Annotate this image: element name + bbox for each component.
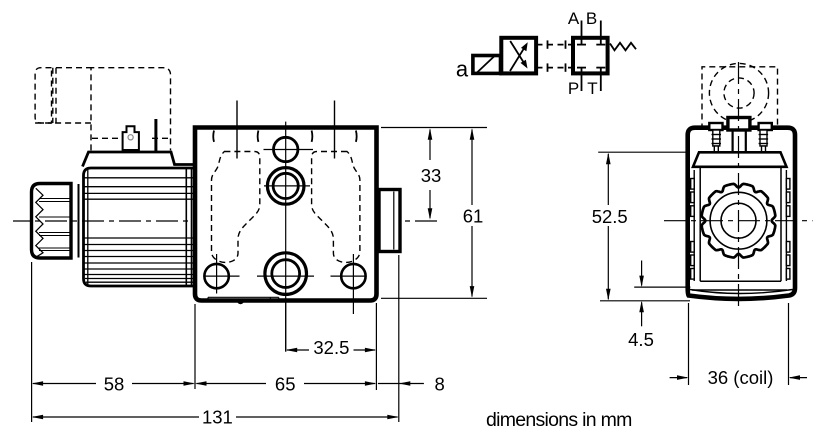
crenellated rib strip right — [785, 170, 787, 281]
ext line 4.5 upper — [634, 286, 690, 288]
dim 4.5 — [641, 261, 643, 286]
terminal bump right — [759, 123, 772, 130]
tab inner line — [393, 192, 395, 250]
crenellated rib strip left — [693, 170, 695, 281]
svg-text:32.5: 32.5 — [313, 337, 349, 358]
solenoid left inner line — [87, 168, 89, 286]
dim 61 — [471, 130, 473, 297]
coil top flange — [693, 152, 787, 167]
port line A — [581, 21, 583, 38]
svg-text:131: 131 — [202, 407, 233, 428]
solenoid actuator box — [473, 56, 501, 74]
inner bottom lines — [700, 280, 781, 282]
terminal bump left — [709, 123, 722, 130]
middle port circle outer — [267, 168, 304, 205]
connector dashed rect — [702, 67, 778, 140]
bottom left mounting hole — [204, 264, 228, 288]
connector mid section — [56, 67, 91, 69]
center tab block — [728, 118, 750, 131]
inner side walls — [699, 167, 701, 281]
connector main housing — [91, 68, 171, 151]
dim 33 — [429, 130, 431, 219]
dim 32.5 — [287, 349, 375, 351]
crossed flow path 1 — [510, 48, 524, 71]
blocked port P — [581, 68, 583, 74]
knurled nut (wavy circle) — [702, 184, 776, 258]
svg-text:58: 58 — [104, 374, 125, 395]
knob knurling zigzag — [36, 188, 43, 256]
top port circle — [274, 137, 298, 161]
extension lines vertical — [32, 255, 399, 422]
port line P — [581, 73, 583, 91]
plate locating bump — [237, 301, 244, 305]
solenoid body groove lines — [84, 178, 196, 282]
side port tab — [379, 190, 400, 252]
coil body outline — [688, 128, 795, 299]
valve position square 0 (blocked ports) — [573, 38, 608, 74]
terminal screw right — [759, 130, 769, 152]
svg-text:P: P — [568, 79, 579, 98]
crossed flow path 2 — [510, 41, 523, 62]
dim 52.5 — [607, 154, 609, 299]
valve position square a (crossed arrows) — [501, 38, 536, 74]
ext line block bottom right — [381, 297, 487, 299]
svg-text:4.5: 4.5 — [628, 329, 654, 350]
connector double line — [52, 68, 54, 123]
return spring — [610, 43, 636, 51]
gallery centerline right — [334, 101, 336, 159]
dim 36 (coil) — [688, 303, 690, 385]
dim 58 / 65 / 8 baseline — [33, 383, 424, 385]
connector dashed outer circle — [709, 63, 768, 122]
blocked port T — [600, 68, 602, 74]
svg-text:65: 65 — [275, 374, 296, 395]
dim 131 — [33, 416, 398, 418]
solenoid diagonal — [477, 57, 495, 74]
transition position (dashed) — [537, 40, 574, 71]
bottom center port circle outer — [265, 253, 307, 295]
bottom right mounting hole — [341, 264, 365, 288]
svg-text:36 (coil): 36 (coil) — [708, 367, 774, 388]
solenoid top cap — [83, 152, 194, 167]
center stem — [731, 130, 733, 152]
solenoid pin — [154, 119, 157, 151]
valve body block — [195, 128, 377, 301]
centerlines of port circles — [204, 122, 365, 352]
solenoid right flange lines — [185, 168, 187, 286]
svg-text:T: T — [587, 79, 597, 98]
connector dashed inner circle — [724, 78, 754, 108]
svg-text:dimensions in mm: dimensions in mm — [486, 409, 632, 431]
blocked port A — [581, 38, 583, 45]
knob horizontal lines — [39, 199, 71, 251]
svg-text:61: 61 — [463, 206, 484, 227]
knob collar — [70, 184, 72, 259]
main horizontal axis centerline — [13, 220, 438, 222]
DIN connector (dashed outline) — [35, 68, 170, 151]
nut inner circle — [721, 203, 756, 238]
nut middle circle — [710, 192, 767, 249]
bottom mounting plate — [208, 297, 279, 300]
gland circle detail — [128, 135, 133, 140]
svg-text:a: a — [456, 57, 469, 82]
svg-text:8: 8 — [434, 374, 444, 395]
svg-text:A: A — [568, 9, 580, 28]
right view centerlines — [664, 220, 813, 222]
internal gallery right (dashed, mirrored) — [312, 152, 360, 263]
manual override knob — [32, 184, 72, 259]
solenoid body — [84, 168, 196, 286]
port line T — [600, 73, 602, 91]
ext line block top right — [381, 127, 487, 129]
connector cap small rounded rect — [35, 68, 51, 123]
bottom thin arc — [690, 290, 793, 294]
port line B — [600, 21, 602, 38]
svg-text:B: B — [586, 9, 597, 28]
bottom center port circle inner — [272, 260, 300, 288]
gallery centerline left — [236, 101, 238, 159]
svg-text:33: 33 — [421, 165, 442, 186]
port opening ticks on block top — [213, 131, 356, 142]
middle port circle inner — [273, 173, 298, 198]
ext line coil top — [598, 151, 686, 153]
terminal screw left — [712, 130, 722, 152]
svg-text:52.5: 52.5 — [592, 206, 628, 227]
internal gallery left (dashed) — [212, 152, 260, 263]
blocked port B — [600, 38, 602, 45]
ext line coil bottom — [600, 300, 690, 302]
solenoid cable gland — [123, 126, 139, 150]
